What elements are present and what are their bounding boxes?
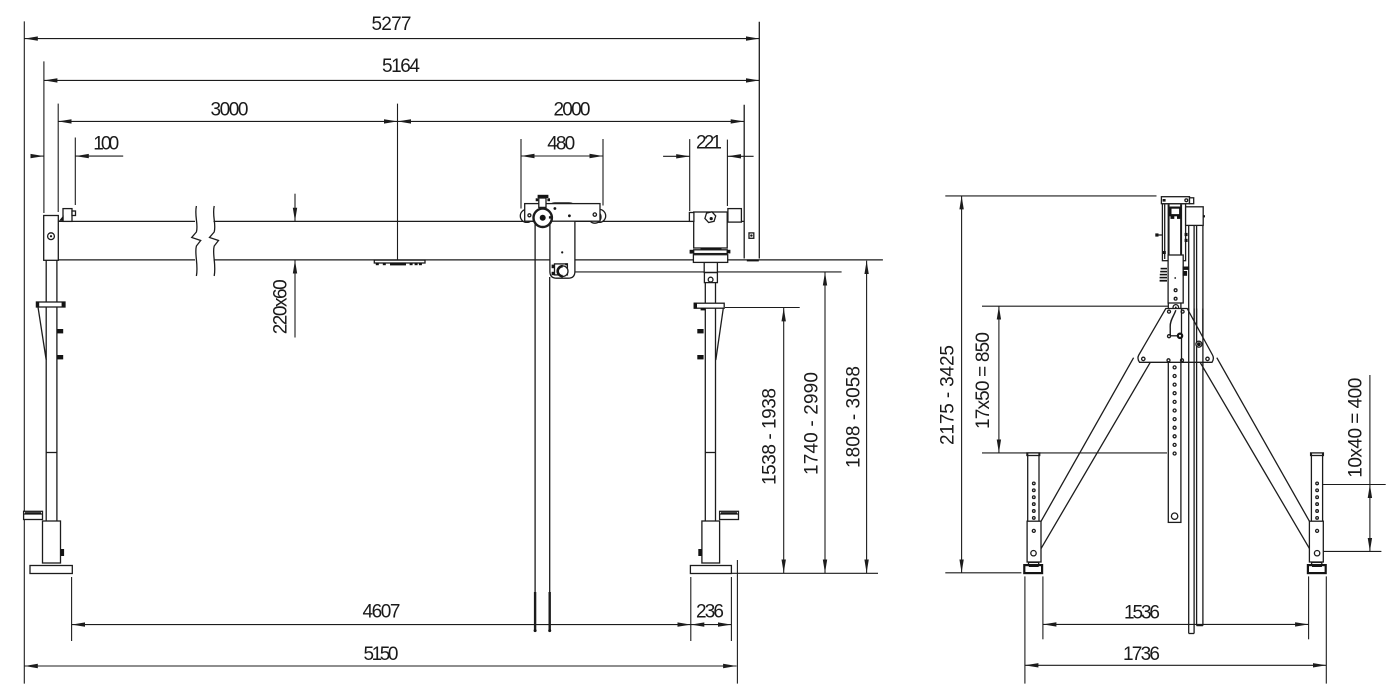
svg-text:480: 480 <box>547 134 575 155</box>
beam bottom edge (extends right as reference) <box>58 259 195 261</box>
svg-text:1808 - 3058: 1808 - 3058 <box>844 366 865 468</box>
extension line 480 left <box>520 139 522 209</box>
mast rails <box>1189 225 1203 633</box>
dim 1536 <box>1043 603 1309 625</box>
svg-text:4607: 4607 <box>363 602 401 623</box>
left foot pedal <box>24 511 43 519</box>
winch top plate <box>1161 197 1193 204</box>
dim 1808-3058 <box>844 261 867 573</box>
dim 4607 <box>72 602 691 625</box>
right post tube <box>705 283 715 521</box>
right beam clamp bracket <box>689 210 727 248</box>
left base plate <box>30 566 72 574</box>
dim 3000 <box>58 100 397 122</box>
dim 17x50=850 <box>973 306 999 453</box>
dim 5164 <box>44 56 759 80</box>
winch right box <box>1163 207 1205 254</box>
extension line 5164/100 left <box>43 61 45 213</box>
extension line 236 right <box>730 577 732 641</box>
beam break symbol <box>192 206 201 276</box>
hoist body <box>550 203 575 278</box>
reference line ground right of left view <box>731 572 878 574</box>
svg-text:17x50 = 850: 17x50 = 850 <box>973 332 994 429</box>
extension line 221 left <box>689 139 691 211</box>
dim 236 <box>691 602 732 625</box>
reference line 17x50 top <box>982 305 1172 307</box>
svg-text:1536: 1536 <box>1124 603 1160 624</box>
extension line 1536 left <box>1042 576 1044 639</box>
left leg <box>1041 358 1150 549</box>
svg-text:10x40 = 400: 10x40 = 400 <box>1346 378 1367 478</box>
dim 1740-2990 <box>802 272 826 573</box>
dim 5277 <box>24 14 759 39</box>
reference line 17x50 bottom <box>982 452 1167 454</box>
dim 2000 <box>398 100 745 122</box>
right sleeve side view <box>1309 521 1323 562</box>
dim 220x60 <box>271 194 296 338</box>
mast carriage <box>1168 255 1183 303</box>
dim 10x40=400 <box>1346 375 1370 551</box>
reference line side top <box>945 195 1156 197</box>
winch left bracket <box>1155 233 1162 236</box>
trolley drive wheel <box>534 209 552 227</box>
extension line 5150 right <box>736 560 738 684</box>
svg-text:236: 236 <box>696 602 724 623</box>
winch coil left <box>1160 268 1167 282</box>
svg-text:5164: 5164 <box>382 56 420 77</box>
dim 1538-1938 <box>760 308 784 573</box>
right post side view <box>1311 453 1324 521</box>
extension line 1736 left <box>1024 576 1026 683</box>
reference line 10x40 bottom <box>1323 550 1381 552</box>
rails visible through gusset <box>1182 309 1203 363</box>
left beam end cap <box>44 216 59 261</box>
svg-text:3000: 3000 <box>211 100 249 121</box>
left post side view <box>1027 453 1040 521</box>
right leg <box>1200 358 1310 549</box>
extension line left outer (5277/5150) <box>23 21 25 683</box>
extension line 1536 right <box>1308 576 1310 639</box>
right foot side view <box>1308 562 1326 573</box>
winch right cluster <box>1174 267 1189 279</box>
carriage holes <box>1174 289 1177 292</box>
svg-text:1736: 1736 <box>1123 644 1160 665</box>
hoist bottom pulley <box>552 263 568 276</box>
right sleeve <box>698 521 719 563</box>
apex pin <box>1173 305 1179 311</box>
beam top edge <box>58 220 195 222</box>
dim 1736 <box>1025 644 1326 665</box>
reference line hook level <box>575 271 842 273</box>
trolley top bracket <box>536 195 550 208</box>
extension line 221 right <box>726 140 728 206</box>
right post slider bracket <box>694 303 724 360</box>
dim 100 <box>31 134 123 157</box>
dim 480 <box>521 134 603 157</box>
rack plate under beam <box>374 260 425 265</box>
left post tube <box>46 260 57 521</box>
left post slider bracket <box>36 302 65 360</box>
left beam stop tab <box>59 209 76 222</box>
reference line 10x40 top <box>1323 484 1386 486</box>
hoist chain left <box>534 224 537 632</box>
right foot pedal <box>720 511 739 519</box>
gusset big bolt <box>1196 341 1202 347</box>
dim 5150 <box>24 644 736 666</box>
trolley axle dots <box>528 214 531 217</box>
dim 2175-3425 <box>938 196 962 573</box>
right post neck and pivot <box>704 262 717 282</box>
svg-text:1740 - 2990: 1740 - 2990 <box>802 372 823 475</box>
reference line side ground <box>945 572 1021 574</box>
svg-text:100: 100 <box>93 134 119 155</box>
reference line slider top right post <box>725 307 800 309</box>
pull cable <box>1170 310 1182 338</box>
svg-text:5277: 5277 <box>372 14 412 35</box>
extension line 1736 right <box>1325 576 1327 683</box>
extension line 480 right <box>602 139 604 206</box>
winch window <box>1170 208 1180 219</box>
trolley body <box>525 204 600 222</box>
svg-text:221: 221 <box>696 133 722 154</box>
right clamp plate <box>690 248 731 263</box>
extension line mid 3000/2000 <box>397 104 399 260</box>
right end bar / mast guide <box>728 22 759 262</box>
dim 221 <box>663 133 754 157</box>
left sleeve <box>43 521 65 563</box>
svg-text:2000: 2000 <box>554 100 591 121</box>
svg-text:220x60: 220x60 <box>271 279 292 334</box>
perforated strip mast <box>1168 261 1181 522</box>
extension line 4607/236 shared <box>690 577 692 641</box>
hoist small bolt <box>561 251 563 253</box>
left foot side view <box>1024 562 1042 573</box>
svg-text:5150: 5150 <box>364 644 399 665</box>
winch head body <box>1162 204 1185 261</box>
extension line 4607 left <box>71 577 73 641</box>
hoist chain right <box>548 277 551 632</box>
gusset plate <box>1138 309 1213 363</box>
trolley end wheels <box>520 209 533 222</box>
svg-text:2175 - 3425: 2175 - 3425 <box>938 345 959 445</box>
svg-text:1538 - 1938: 1538 - 1938 <box>760 388 781 485</box>
right base plate <box>690 566 731 574</box>
extension line 100 right <box>74 138 76 206</box>
extension line 3000 left <box>57 104 59 212</box>
left sleeve side view <box>1027 521 1041 562</box>
